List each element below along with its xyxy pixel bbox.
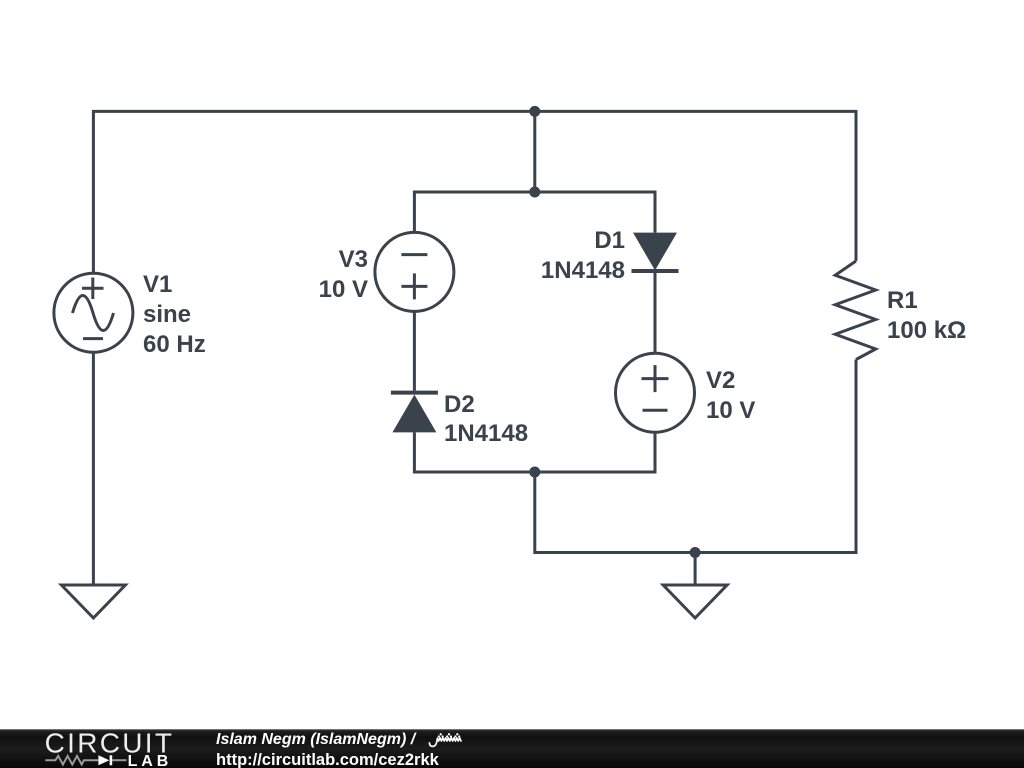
footer attribution text (216, 732, 415, 748)
ground (left, below V1) (61, 585, 125, 618)
wire: inner top rail with leads to V3 and D1 (414, 192, 655, 233)
CircuitLab logo (0, 729, 200, 768)
footer url (216, 752, 439, 768)
svg-text:60 Hz: 60 Hz (143, 331, 206, 358)
svg-text:V2: V2 (706, 367, 735, 394)
label V3 value (319, 246, 368, 303)
node junction bottom (690, 547, 701, 558)
node junction inner-bottom (529, 467, 540, 478)
svg-text:1N4148: 1N4148 (541, 257, 625, 284)
wire: D1 cathode to V2 top (654, 271, 657, 352)
label D1 value (541, 227, 625, 284)
svg-text:100 kΩ: 100 kΩ (887, 317, 966, 344)
label V2 value (706, 367, 755, 424)
svg-text:V1: V1 (143, 271, 172, 298)
svg-text:R1: R1 (887, 287, 918, 314)
svg-text:sine: sine (143, 301, 191, 328)
node junction inner-top (529, 187, 540, 198)
label V1 value (143, 271, 206, 358)
footer attribution arabic (427, 730, 463, 750)
wire: V1 top lead, top horizontal rail, R1 top lead (93, 111, 856, 272)
svg-text:10 V: 10 V (319, 276, 368, 303)
svg-text:LAB: LAB (128, 753, 173, 768)
label D2 value (444, 391, 528, 447)
voltage source V2 (616, 353, 695, 432)
diode D2 (391, 393, 438, 433)
voltage source V1 (54, 273, 133, 352)
resistor R1 (835, 261, 876, 360)
wire: mid ground stub (694, 553, 697, 586)
svg-text:D2: D2 (444, 391, 475, 418)
footer bar (0, 729, 1024, 768)
svg-text:D1: D1 (594, 227, 625, 254)
wire: R1 bottom lead, bottom rail, stub up to inner-bottom node (535, 360, 856, 553)
wire: inner bottom rail with leads from D2 and V2 (414, 432, 655, 472)
ground (bottom middle) (663, 585, 727, 618)
diode D1 (632, 233, 679, 271)
wire: V3 bottom lead to D2 (413, 312, 416, 390)
wire: V1 bottom lead to ground (92, 353, 95, 585)
svg-text:V3: V3 (339, 246, 368, 273)
voltage source V3 (375, 232, 454, 311)
label R1 value (887, 287, 966, 344)
node junction top (529, 106, 540, 117)
wire: stub from top rail node down to inner-top node (533, 111, 536, 192)
svg-text:1N4148: 1N4148 (444, 420, 528, 447)
svg-text:10 V: 10 V (706, 397, 755, 424)
